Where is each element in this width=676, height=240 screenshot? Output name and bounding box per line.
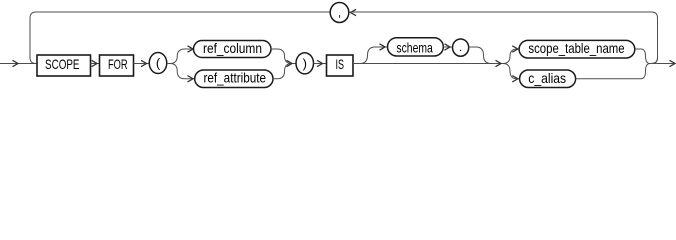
wire: merge to right paren	[292, 63, 296, 65]
svg-text:.: .	[459, 40, 462, 54]
wire: fork up to scope_table_name	[503, 49, 519, 64]
svg-text:ref_attribute: ref_attribute	[204, 70, 267, 86]
left paren circle	[149, 53, 167, 74]
comma circle	[330, 3, 349, 23]
svg-text:(: (	[156, 56, 161, 71]
wire: right paren to IS	[314, 63, 327, 65]
wire: loop branch up at right	[652, 58, 658, 64]
wire: ref_column merge down	[271, 49, 292, 64]
wire: schema to period	[443, 46, 452, 48]
arrow before FOR	[92, 60, 98, 66]
right paren label	[303, 56, 307, 71]
wire: FOR to left paren	[134, 63, 150, 65]
period circle	[453, 39, 469, 56]
arrow before table fork	[496, 60, 502, 66]
wire: ref_attribute merge up	[273, 64, 292, 79]
svg-text:scope_table_name: scope_table_name	[528, 40, 624, 56]
variable oval ref_column	[194, 41, 272, 58]
keyword box FOR	[100, 55, 134, 76]
svg-text:FOR: FOR	[108, 56, 128, 72]
left paren label	[156, 56, 161, 71]
svg-text:,: ,	[338, 6, 341, 20]
svg-text:): )	[303, 56, 307, 71]
arrow before period	[445, 44, 451, 50]
label FOR	[108, 56, 128, 72]
arrow before c_alias	[512, 76, 518, 82]
svg-text:SCOPE: SCOPE	[45, 56, 80, 72]
wire: schema branch rise	[360, 47, 388, 64]
wire: fork down to ref_attribute row	[170, 64, 195, 79]
arrow before left paren	[141, 60, 147, 66]
wire: loop top line left segment	[36, 11, 330, 13]
arrow before ref_column	[188, 46, 194, 52]
arrow exit	[670, 60, 676, 66]
label ref_column	[203, 40, 262, 56]
variable oval ref_attribute	[195, 70, 273, 88]
label schema	[396, 40, 433, 56]
arrow before schema	[380, 44, 386, 50]
svg-text:schema: schema	[396, 40, 433, 56]
comma label	[338, 6, 341, 20]
wire: scope_table_name merge down	[635, 49, 650, 64]
variable oval schema	[388, 38, 444, 56]
wire: paren to fork	[167, 63, 170, 65]
arrow before ref_attribute	[188, 76, 194, 82]
wire: SCOPE to FOR	[91, 63, 100, 65]
arrow before right paren	[287, 60, 293, 66]
wire: exit main line	[650, 63, 676, 65]
wire: loop top line right segment	[349, 11, 652, 13]
label SCOPE	[45, 56, 80, 72]
variable oval c_alias	[520, 70, 576, 88]
svg-text:c_alias: c_alias	[528, 70, 566, 86]
wire: fork down to c_alias	[503, 64, 520, 79]
label ref_attribute	[204, 70, 267, 86]
period label	[459, 40, 462, 54]
wire: IS bypass main line	[353, 63, 503, 65]
arrow loop pointing left	[351, 9, 357, 15]
right paren circle	[296, 53, 314, 74]
keyword box SCOPE	[37, 55, 91, 76]
wire: schema branch descend	[469, 47, 491, 64]
label scope_table_name	[528, 40, 624, 56]
label IS	[336, 56, 345, 72]
wire: loop right vertical with corner	[652, 12, 658, 64]
wire: fork up to ref_column row	[170, 49, 194, 64]
svg-text:ref_column: ref_column	[203, 40, 262, 56]
arrow entry	[13, 60, 19, 66]
wire: c_alias merge up	[576, 64, 650, 79]
arrow before scope_table_name	[512, 46, 518, 52]
svg-text:IS: IS	[336, 56, 345, 72]
label c_alias	[528, 70, 566, 86]
wire: loop left vertical with corners	[30, 12, 36, 64]
keyword box IS	[327, 55, 354, 76]
arrow before IS	[317, 60, 323, 66]
wire: entry main line	[0, 63, 37, 65]
variable oval scope_table_name	[519, 40, 635, 58]
